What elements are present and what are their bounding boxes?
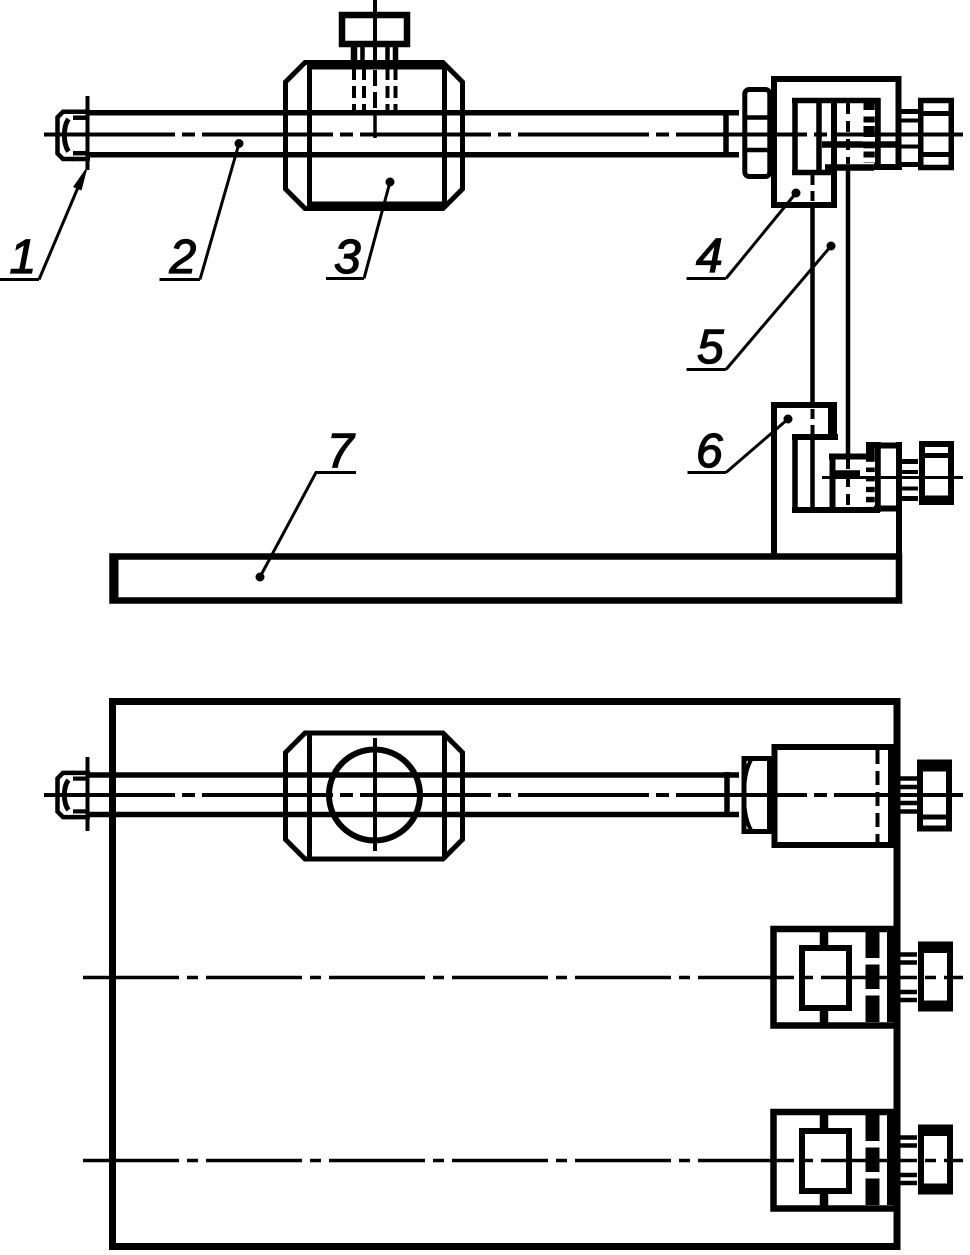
rod 2 thread outer top line at cap end (plan): [72, 771, 90, 776]
plate outline (plan view): [113, 702, 898, 1247]
clamp 6 hook top bar: [829, 454, 874, 460]
rod 2 bottom edge (plan): [87, 812, 739, 818]
rod 2 thread end mark: [723, 112, 729, 157]
clamp 6 leg top bar: [771, 402, 837, 408]
row 2 jaw square: [802, 948, 849, 1008]
rod 2 thread minor top line at cap end (plan): [73, 776, 89, 780]
clamp 6 leg right bar: [828, 402, 837, 440]
row 2 jaw tab bottom: [820, 1011, 829, 1023]
bushing thread hatch (upper assembly): [863, 103, 876, 163]
rod 2 thread end mark (plan): [724, 772, 730, 817]
clamp 4 outer left bar: [771, 76, 777, 208]
cap 1 outline (plan): [58, 773, 75, 817]
rod 2 top edge: [87, 110, 739, 116]
row 3 inner wall bar: [887, 1115, 894, 1205]
label 7 leader: [260, 473, 316, 578]
clamp 6 mid crossbar: [830, 470, 860, 477]
row 3 screw shaft lines: [898, 1138, 918, 1184]
label 2 leader: [200, 144, 239, 280]
clamp screw head flat line bottom (lower): [919, 496, 954, 501]
block 3 inner face left line (plan): [307, 733, 312, 859]
label 6 leader: [726, 419, 788, 473]
label 5 underline: [687, 368, 727, 371]
clamp 4 outer top bar: [771, 76, 902, 82]
clamp screw shaft (lower) thread minor top: [896, 470, 918, 474]
svg-text:5: 5: [697, 321, 724, 374]
clamp 4 inner jaw left bar: [792, 98, 798, 175]
svg-text:1: 1: [10, 231, 37, 284]
cap 1 outline (spherical end): [58, 112, 75, 159]
clamp 4 body (plan): [775, 747, 892, 845]
support column right edge: [896, 442, 902, 602]
hex nut chamfer arc (plan): [744, 760, 751, 830]
vertical rod 5 right edge (hidden in clamp 4, dashed): [846, 103, 850, 164]
block 3 inner face right line (plan): [442, 733, 447, 859]
rod 2 thread minor bottom line at cap end: [73, 151, 89, 156]
svg-text:2: 2: [169, 231, 197, 284]
clamp screw head (plan row 1): [920, 763, 949, 829]
clamp 4 outer right bar: [896, 76, 902, 167]
label 5 leader: [726, 246, 831, 370]
label 7 underline: [315, 471, 356, 474]
row 3 jaw square: [802, 1131, 849, 1191]
label 4 underline: [687, 277, 727, 280]
label 6 underline: [688, 471, 727, 474]
clamp screw hex head (upper): [921, 101, 952, 168]
clamp 6 body left bar: [792, 437, 798, 510]
clamp 4 bottom-left leg bar: [771, 202, 837, 208]
clamp screw shaft lines (plan row 1): [898, 779, 918, 812]
clamp screw shaft (upper) bottom edge: [896, 162, 918, 167]
vertical rod 5 left edge (hidden in clamp 6 leg): [811, 409, 815, 434]
vertical rod 5 left edge (inside clamp 6 body): [810, 440, 815, 507]
rod 2 thread minor top line at cap end: [73, 115, 89, 120]
row 3 jaw tab bottom: [820, 1194, 829, 1206]
hex nut flat line top: [743, 115, 773, 120]
clamp screw shaft (lower) top edge: [902, 459, 918, 464]
block 3 inner face rectangle: [310, 67, 445, 204]
clamp 4 inner jaw bottom bar: [792, 170, 837, 176]
clamp 4 bottom window sill bar: [825, 164, 874, 171]
knob of clamping screw: [342, 15, 407, 44]
clamp 6 body bottom bar: [792, 507, 880, 513]
cap 1 boundary tick (plan): [86, 757, 90, 831]
row 2 screw shaft lines: [898, 955, 918, 1001]
clamp screw shaft (upper) thread minor top: [896, 119, 918, 123]
clamp 4 bushing inner bar: [874, 98, 881, 165]
bushing thread hatch (lower assembly): [865, 442, 875, 512]
base plate 7: [113, 557, 900, 601]
axis centerline of rod 2 (top view): [44, 133, 963, 137]
clamp 4 jaw slot inner line: [816, 103, 822, 170]
hidden hole for rod 5 in clamp (plan, dashed): [876, 750, 880, 842]
clamp screw shaft (upper) top edge: [896, 109, 918, 114]
clamp 6 leg bottom bar: [792, 434, 838, 440]
block 3 outer octagon (plan): [286, 733, 463, 859]
vertical rod 5 right edge hidden in clamp 6 (dashed): [846, 458, 850, 508]
label 1 leader with arrow: [39, 178, 82, 280]
clamp 6 jaw vertical bar: [830, 454, 836, 511]
clamp 4 jaw right vertical bar: [831, 100, 837, 205]
hex nut (plan): [744, 759, 770, 832]
row 2 centerline: [83, 976, 963, 980]
label 1 underline: [0, 278, 39, 281]
row 2 bushing bar with thread slits: [866, 932, 880, 1022]
rod 2 thread outer top line at cap end: [72, 110, 90, 115]
rod 2 thread outer bottom line at cap end: [72, 157, 90, 162]
cap 1 boundary tick: [86, 96, 90, 170]
hex nut on rod 2: [745, 90, 770, 177]
head flat lines (plan row 1): [917, 766, 952, 772]
screw hole circle in block 3: [329, 750, 420, 841]
clamp 4 mid horizontal bar under screw: [822, 141, 901, 148]
knob screw centerline dashed inside block: [373, 112, 377, 138]
row 2 screw head: [921, 945, 950, 1009]
knob screw centerline (vertical axis): [373, 0, 377, 60]
support column cap bar over bolt window: [874, 443, 902, 449]
svg-text:6: 6: [696, 425, 723, 478]
svg-text:7: 7: [327, 425, 356, 478]
clamp 4 bottom-right bar: [874, 164, 902, 170]
row 3 jaw tab top: [820, 1115, 829, 1128]
screw shank thread lines (solid between knob and block): [354, 44, 396, 64]
row 3 screw head: [921, 1128, 950, 1192]
screw shank thread lines (hidden/dashed inside block 3): [354, 68, 396, 112]
row 2 jaw tab top: [820, 932, 829, 945]
label 3 underline: [326, 277, 364, 280]
axis centerline of rod 2 (plan): [44, 793, 963, 797]
row 3 centerline: [83, 1159, 963, 1163]
vertical centerline through circle: [373, 738, 377, 851]
rod 2 bottom edge: [87, 152, 739, 158]
label 4 leader: [726, 193, 796, 279]
lower clamp screw centerline: [822, 476, 963, 479]
rod 2 thread outer bottom line at cap end (plan): [72, 815, 90, 820]
rod 2 top edge (plan): [87, 772, 739, 778]
clamp screw hex head (lower): [922, 444, 951, 502]
vertical rod 5 left edge (solid): [810, 208, 815, 402]
base plate 7 left edge (thick): [110, 554, 119, 601]
vertical rod 5 right edge (solid): [846, 167, 851, 454]
clamp screw head flat line top (upper): [918, 111, 954, 116]
row 3 head flat lines: [918, 1130, 953, 1136]
clamp screw head flat line top (lower): [919, 453, 954, 458]
clamp 6 bushing inner bar: [874, 442, 881, 512]
hex nut flat line bottom: [743, 148, 773, 153]
support column lower bar under bolt window: [874, 506, 902, 512]
clamp screw shaft (lower) thread minor bottom: [896, 487, 918, 491]
row 3 bushing bar with thread slits: [866, 1115, 880, 1205]
vertical rod 5 left edge (hidden in clamp 4 leg): [811, 175, 815, 202]
label 2 underline: [160, 278, 201, 281]
row 2 clamp outer square: [774, 929, 897, 1026]
row 2 head flat lines: [918, 947, 953, 953]
svg-text:3: 3: [334, 231, 361, 284]
clamp 6 outer left bar (continues as column edge): [771, 402, 777, 556]
clamp screw shaft (lower) bottom edge: [896, 496, 918, 501]
clamp screw shaft (upper) thread minor bottom: [896, 145, 918, 149]
clamp screw head flat line bottom (upper): [918, 152, 954, 157]
cap 1 inner arc: [64, 119, 68, 152]
row 2 inner wall bar: [887, 932, 894, 1022]
cap 1 inner arc (plan): [64, 780, 68, 810]
svg-text:4: 4: [696, 230, 723, 283]
row 3 clamp outer square: [774, 1112, 897, 1209]
label 3 leader: [364, 182, 390, 279]
block 3 outer octagon: [286, 63, 463, 209]
clamp 4 inner jaw top bar: [792, 98, 880, 104]
rod 2 thread minor bottom line at cap end (plan): [73, 809, 89, 813]
